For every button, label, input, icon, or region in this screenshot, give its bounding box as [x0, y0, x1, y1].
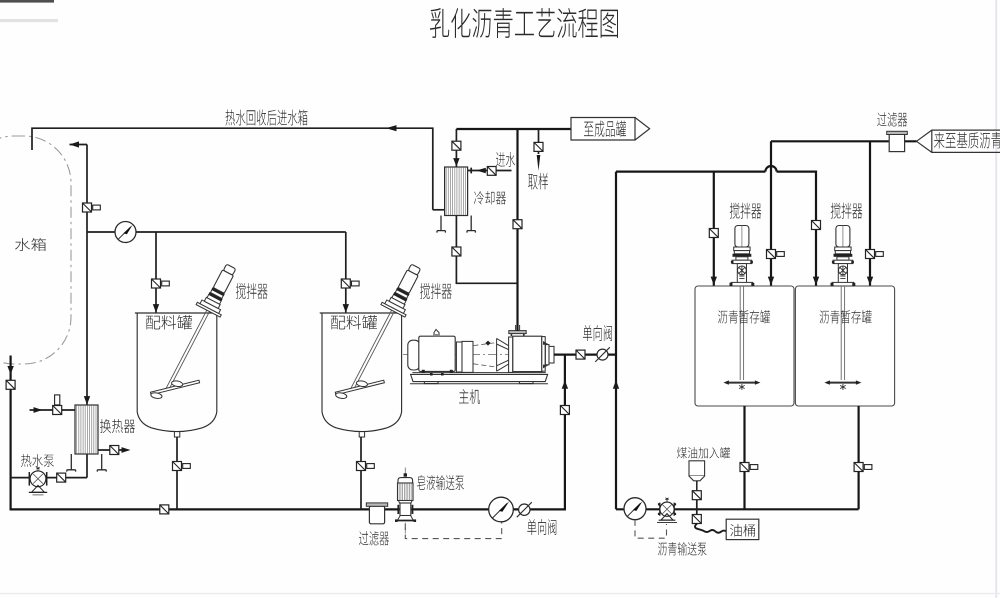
- arrow into tank side: [70, 141, 80, 147]
- label 沥青暂存罐 2: [820, 310, 872, 324]
- propeller inside T2: [332, 374, 386, 402]
- soap transfer pump 皂液输送泵 P2: [395, 468, 416, 534]
- main machine 主机 M1 (colloid mill): [403, 325, 560, 384]
- valve V17 sampling: [534, 142, 543, 151]
- label 过滤器 (soap): [359, 531, 389, 546]
- agitator assembly on T2: [351, 260, 428, 390]
- wire: water supply riser: [70, 145, 88, 405]
- label 过滤器 (top right): [877, 112, 907, 127]
- wire: T1 bottom outlet: [176, 437, 178, 509]
- valve V14 cooler feed: [452, 141, 461, 150]
- wire: T3 bottom outlet: [743, 406, 745, 509]
- label 油桶: [730, 524, 755, 537]
- valve V19 tank2 recirc: [812, 221, 821, 230]
- valve V1 on riser: [83, 203, 101, 212]
- valve V2 on mix tank 1 feed: [152, 279, 170, 288]
- hose to drum: [695, 524, 726, 533]
- dashed instrument link pump-meter: [405, 522, 501, 538]
- wire: asphalt riser and tank recirculation header: [616, 172, 816, 510]
- valve V15 cooler return: [452, 247, 461, 256]
- label 单向阀 (soap line): [527, 519, 556, 535]
- banner 至成品罐 (to product tank): [571, 118, 650, 141]
- wire: product header: [456, 128, 571, 130]
- valve V11 soap riser: [560, 406, 569, 415]
- valve V22 T3 outlet: [740, 463, 758, 472]
- valve V16 water inlet: [487, 167, 496, 176]
- label 配料罐 2: [331, 315, 377, 330]
- scan artifact top-left: [0, 0, 58, 22]
- arrow sampling outlet: [537, 155, 541, 171]
- label 进水: [496, 152, 515, 167]
- label 配料罐 1: [146, 315, 192, 330]
- wire: hot water pump suction: [11, 454, 87, 478]
- label 沥青暂存罐 1: [718, 310, 770, 324]
- wire: exchanger cold inlet: [30, 409, 76, 411]
- wire: cooler return loop: [456, 216, 517, 284]
- wire: tank bottom outlet and soap suction main: [11, 355, 565, 510]
- valve V4 tank bottom: [6, 380, 15, 389]
- label 热水泵: [21, 454, 54, 467]
- wire: cooler feed drop: [455, 129, 457, 167]
- wire: hot water return line to tank: [32, 128, 433, 210]
- pressure gauge PG2: [624, 498, 646, 520]
- valve V23 T4 outlet: [854, 463, 872, 472]
- asphalt transfer pump 沥青输送泵 P3: [657, 498, 677, 523]
- arrow on return line: [386, 125, 397, 131]
- valve V6 exchanger inlet: [53, 395, 62, 415]
- cooler 冷却器 E2: [437, 167, 475, 233]
- wire: base asphalt feed header: [771, 141, 917, 285]
- pressure gauge PG1: [115, 222, 136, 243]
- arrow into mix tank 2: [343, 304, 349, 313]
- agitator on T3 搅拌器: [723, 226, 760, 391]
- wire: mill inlet header: [554, 354, 616, 356]
- label 搅拌器 (storage tank 1): [730, 203, 762, 219]
- water tank 水箱: [0, 136, 71, 364]
- heat exchanger 换热器 E1: [67, 405, 106, 472]
- valve V24 kerosene feed: [692, 491, 701, 500]
- arrow into storage tank2 right nozzle: [867, 277, 873, 286]
- valve V9 T1 outlet: [173, 462, 191, 471]
- wire: product riser from mill: [516, 129, 518, 331]
- label 单向阀 (mill): [583, 325, 612, 341]
- label 煤油加入罐: [677, 447, 730, 459]
- arrow into heat exchanger top: [84, 396, 90, 405]
- arrow exchanger outlet: [122, 447, 131, 453]
- wire: T2 bottom outlet: [360, 437, 362, 509]
- arrow water into cooler: [476, 168, 486, 173]
- wire: kerosene into main: [696, 500, 698, 515]
- label 沥青输送泵: [658, 542, 707, 556]
- wire: sampling branch 取样: [538, 129, 540, 154]
- propeller inside T1: [148, 374, 202, 402]
- arrow into storage tank1 right nozzle: [768, 277, 774, 286]
- label 热水回收后进水箱: [226, 110, 308, 126]
- check valve CV2 mill inlet: [595, 347, 610, 362]
- label 搅拌器 (mix tank 1): [236, 283, 268, 299]
- agitator assembly on T1: [166, 260, 243, 390]
- scan artifact bottom edge: [0, 593, 1000, 595]
- label 水箱: [15, 238, 46, 251]
- label 取样: [528, 173, 548, 190]
- banner 来至基质沥青罐 (from base asphalt tank): [917, 130, 1000, 152]
- label 搅拌器 (storage tank 2): [831, 203, 863, 219]
- valve V13 product riser: [513, 220, 522, 229]
- kerosene addition tank 煤油加入罐: [689, 461, 705, 491]
- filter 过滤器 F1: [366, 503, 387, 524]
- arrow tank outlet down: [7, 366, 13, 375]
- valve V3 on mix tank 2 feed: [341, 279, 359, 288]
- mixing tank T2 配料罐: [320, 313, 404, 437]
- wire: cooler water outlet stub: [433, 209, 445, 211]
- mixing tank T1 配料罐: [135, 313, 219, 437]
- arrow into storage tank1 left nozzle: [711, 277, 717, 286]
- wire: cooling water inlet 进水: [468, 168, 512, 174]
- arrow exchanger inlet: [34, 407, 43, 413]
- wire: feed water header: [87, 232, 346, 313]
- label 至成品罐: [584, 121, 626, 138]
- valve V18 tank1 recirc: [709, 229, 718, 238]
- label 主机: [459, 389, 480, 404]
- arrow soap riser up: [562, 380, 568, 389]
- flow meter FM1: [489, 497, 514, 522]
- valve V12 mill inlet: [576, 350, 585, 359]
- arrow into mix tank 1: [153, 304, 159, 313]
- filter 过滤器 F2: [887, 131, 908, 151]
- arrow into cooler: [453, 158, 459, 167]
- title 乳化沥青工艺流程图: [430, 8, 618, 38]
- agitator on T4 搅拌器: [824, 226, 861, 391]
- dashed instrument link gauge-pump: [635, 520, 667, 538]
- valve V7 exchanger outlet: [110, 446, 119, 455]
- wire: exchanger cold outlet: [98, 449, 123, 451]
- scan artifact right edge: [995, 0, 997, 598]
- valve V21 tank2 fill: [866, 250, 884, 259]
- wire: T4 bottom outlet: [857, 406, 859, 509]
- hot water pump 热水泵 P1: [29, 467, 47, 495]
- valve V25 drum suction: [692, 515, 701, 524]
- valve V20 tank1 fill: [767, 250, 785, 259]
- label 冷却器: [474, 191, 506, 205]
- label 来至基质沥青罐: [934, 132, 1000, 149]
- arrow into storage tank2 left nozzle: [813, 277, 819, 286]
- label 皂液输送泵: [417, 475, 464, 490]
- pipe hop over drop line: [765, 166, 776, 172]
- label 搅拌器 (mix tank 2): [420, 283, 452, 299]
- check valve 单向阀 CV1: [517, 502, 532, 517]
- arrow asphalt riser up: [613, 380, 619, 389]
- wire: asphalt pump suction main: [616, 508, 859, 510]
- asphalt storage tank T4 沥青暂存罐: [795, 286, 894, 406]
- label 换热器: [100, 419, 135, 433]
- valve V10 T2 outlet: [357, 462, 375, 471]
- asphalt storage tank T3 沥青暂存罐: [695, 286, 794, 406]
- valve V5 on soap main: [160, 505, 169, 514]
- valve V8 pump discharge: [57, 473, 66, 482]
- oil drum 油桶: [726, 519, 759, 539]
